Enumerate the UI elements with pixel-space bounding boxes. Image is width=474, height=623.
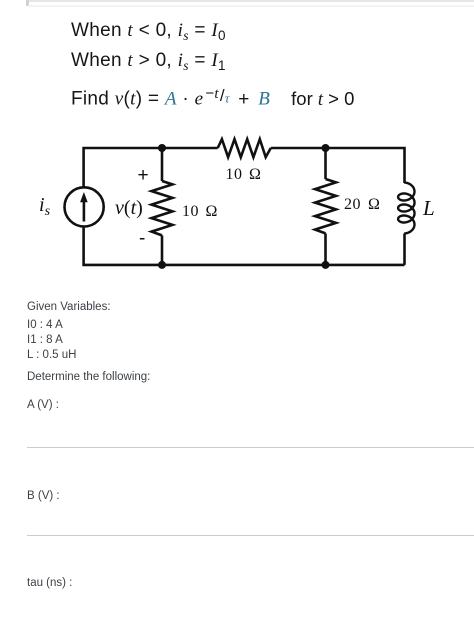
- given variables heading: [27, 300, 111, 314]
- wire bottom segment: [162, 264, 405, 267]
- node B top: [322, 144, 330, 152]
- answer label B: [27, 489, 60, 503]
- resistor R1 10ohm vertical leads: [161, 148, 164, 181]
- variable L: [27, 348, 76, 362]
- resistor R2 10ohm horizontal: [218, 139, 271, 157]
- inductor L leads: [403, 234, 406, 265]
- current source Is circle: [65, 187, 104, 226]
- toolbar remnant left cap: [26, 0, 29, 6]
- equation line 1: When t < 0, is = I0: [71, 20, 226, 41]
- answer label A: [27, 398, 59, 412]
- node C bottom: [158, 261, 166, 269]
- label is (current source): [39, 195, 50, 222]
- node D bottom: [322, 261, 330, 269]
- label + polarity: [138, 166, 149, 185]
- toolbar remnant top edge: [27, 0, 474, 2]
- resistor R1 10ohm vertical zigzag: [152, 181, 173, 235]
- label - polarity: [139, 229, 145, 248]
- current source arrow: [80, 192, 88, 222]
- resistor R3 20ohm leads: [324, 148, 327, 179]
- wire top-left segment: [84, 148, 162, 187]
- wire left bottom segment: [84, 227, 162, 265]
- toolbar remnant shadow line: [28, 5, 474, 7]
- variable I1: [27, 333, 63, 347]
- determine heading: [27, 370, 150, 384]
- equation line 2: When t > 0, is = I1: [71, 50, 226, 71]
- resistor R3 20ohm zigzag: [315, 179, 336, 233]
- rule 1: [27, 447, 474, 448]
- node A top: [158, 144, 166, 152]
- inductor L coil: [398, 183, 414, 234]
- variable I0: [27, 318, 63, 332]
- label v(t): [115, 198, 143, 218]
- wire top middle segment: [162, 147, 218, 150]
- label 10ohm R1: [182, 203, 218, 220]
- answer label tau: [27, 576, 72, 590]
- label 20ohm R3: [344, 196, 380, 213]
- label 10ohm R2: [226, 166, 262, 183]
- equation line 3: Find v(t) = A e^-t/tau + B for t > 0: [71, 85, 354, 111]
- label L inductor: [423, 198, 435, 219]
- wire top right segment: [271, 148, 405, 183]
- rule 2: [27, 535, 474, 536]
